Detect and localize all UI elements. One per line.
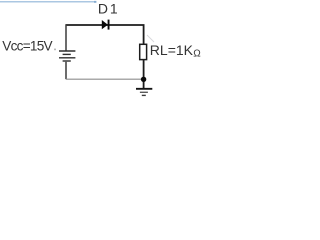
- svg-text:Vcc=15V: Vcc=15V: [2, 38, 52, 53]
- svg-text:RL=1K: RL=1K: [150, 42, 194, 58]
- svg-text:D1: D1: [98, 1, 120, 17]
- resistor RL box: [140, 44, 147, 59]
- wire resistor bottom lead: [143, 60, 145, 89]
- diode D1: [102, 20, 110, 30]
- wire battery top lead: [65, 24, 67, 51]
- wire bottom: [66, 78, 144, 80]
- wire top loop: [66, 25, 144, 44]
- svg-text:Ω: Ω: [193, 48, 201, 59]
- stray dot: [54, 49, 56, 51]
- blue top border line: [0, 1, 95, 3]
- wire battery bottom lead: [65, 62, 67, 79]
- battery V1 plates: [59, 51, 75, 61]
- junction dot: [141, 77, 146, 82]
- faint cursor mark: [147, 35, 154, 42]
- blue line darker end tip: [94, 1, 96, 3]
- ground: [136, 89, 152, 96]
